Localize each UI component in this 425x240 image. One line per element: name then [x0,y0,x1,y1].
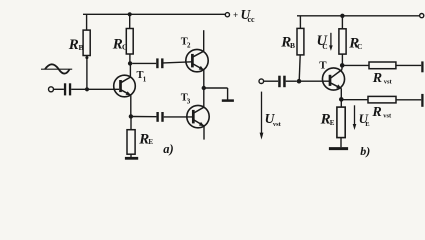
svg-text:1: 1 [143,76,147,84]
svg-text:vst: vst [383,113,392,120]
svg-text:R: R [68,37,79,53]
svg-text:cc: cc [248,15,256,24]
svg-text:C: C [357,42,362,51]
svg-text:2: 2 [187,41,191,49]
svg-text:R: R [371,105,381,120]
svg-text:E: E [365,121,369,128]
svg-text:R: R [372,71,382,86]
svg-text:vst: vst [384,79,393,86]
svg-text:a): a) [163,142,173,156]
svg-text:+: + [233,10,238,20]
svg-text:E: E [330,119,335,127]
svg-text:C: C [122,43,127,52]
svg-text:T: T [319,59,327,71]
svg-text:vst: vst [273,121,282,128]
svg-text:B: B [79,43,84,52]
svg-text:E: E [148,138,153,146]
svg-text:C: C [322,42,327,51]
svg-text:3: 3 [187,97,191,105]
svg-text:B: B [290,41,295,50]
svg-text:b): b) [360,144,370,158]
